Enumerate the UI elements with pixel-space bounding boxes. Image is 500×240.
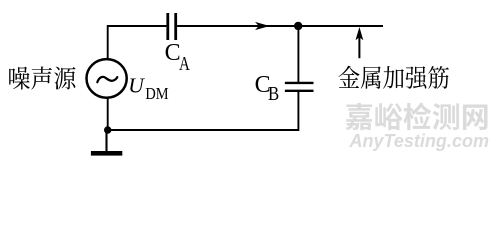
- AC source U_DM (noise source): [87, 59, 127, 98]
- ground (earth bar): [91, 151, 122, 156]
- label noise source 噪声源: [9, 66, 75, 89]
- arrowhead: current direction on top rail: [255, 22, 270, 30]
- svg-text:A: A: [179, 52, 190, 75]
- svg-text:U: U: [128, 73, 145, 97]
- node: junction dot on top rail: [294, 22, 302, 30]
- wire: branch from node down to capacitor CB: [297, 26, 299, 82]
- node: junction dot on bottom rail: [104, 126, 111, 133]
- capacitor CA (series, top rail): [168, 13, 176, 40]
- arrow: pointer up to metal rib rail: [356, 27, 364, 58]
- watermark 嘉峪检测网: [346, 103, 488, 131]
- svg-text:C: C: [165, 40, 181, 66]
- wire: source bottom lead to bottom-rail node: [107, 98, 109, 130]
- wire: ground stub: [105, 130, 107, 151]
- wire: top rail left segment (corner above source to capacitor CA): [108, 26, 167, 59]
- wire: branch from capacitor CB down and left along bottom rail: [108, 92, 299, 130]
- label metal reinforcement rib 金属加强筋: [338, 66, 448, 89]
- wire: top rail mid segment (capacitor CA to node dot): [177, 25, 298, 27]
- svg-text:DM: DM: [145, 84, 168, 103]
- capacitor CB (shunt branch): [285, 83, 314, 91]
- wire: top rail right segment (node dot to open end): [299, 25, 384, 27]
- svg-text:AnyTesting.com: AnyTesting.com: [349, 130, 489, 151]
- svg-text:B: B: [268, 83, 279, 106]
